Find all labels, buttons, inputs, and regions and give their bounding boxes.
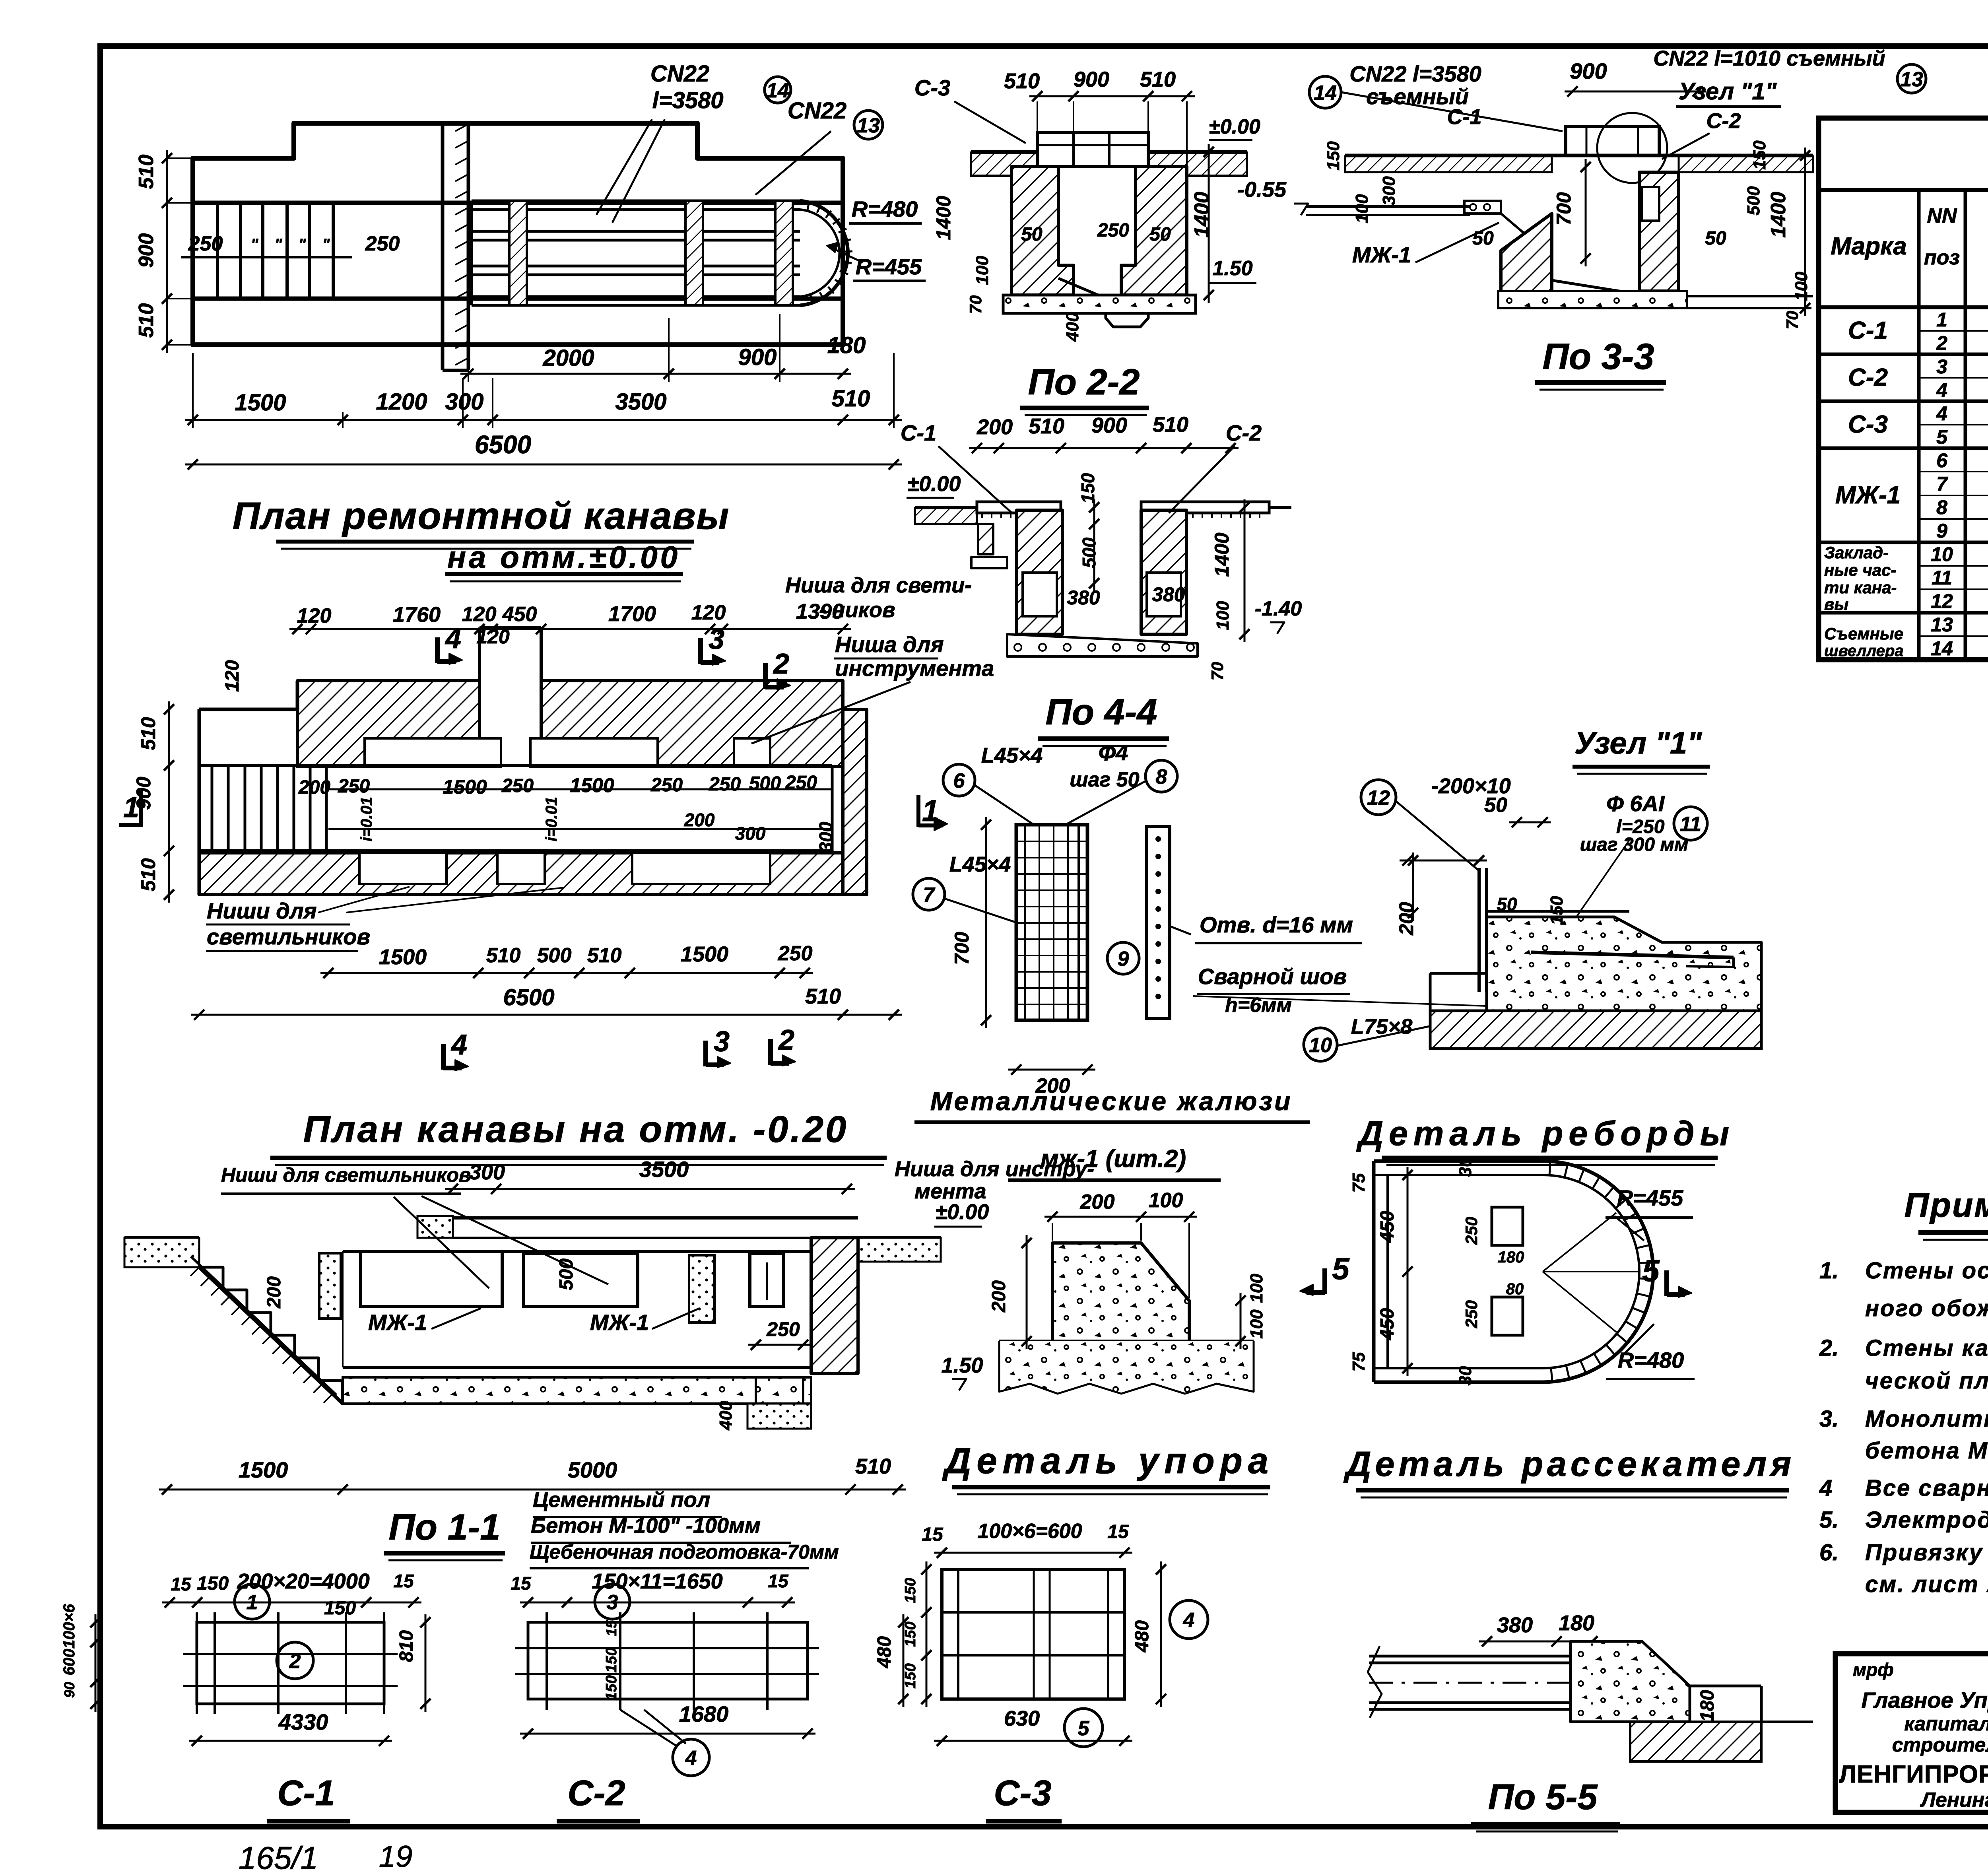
svg-text:250: 250 (365, 232, 400, 255)
svg-text:6500: 6500 (503, 985, 554, 1010)
svg-text:510: 510 (486, 944, 521, 967)
svg-text:Узел "1": Узел "1" (1574, 725, 1703, 760)
svg-text:120: 120 (691, 601, 726, 624)
svg-text:R=455: R=455 (1617, 1185, 1683, 1210)
svg-text:500: 500 (749, 773, 781, 794)
svg-text:МЖ-1: МЖ-1 (590, 1310, 649, 1335)
svg-text:600: 600 (60, 1649, 78, 1676)
svg-text:100: 100 (1792, 272, 1811, 301)
svg-text:1500: 1500 (235, 390, 286, 416)
svg-text:50: 50 (1484, 794, 1507, 817)
svg-text:Главное Управление: Главное Управление (1861, 1688, 1988, 1713)
svg-text:на отм.±0.00: на отм.±0.00 (447, 540, 680, 575)
svg-text:ного обожженного кирпича М-: ного обожженного кирпича М-100" на раств… (1865, 1295, 1988, 1321)
svg-text:По 4-4: По 4-4 (1046, 692, 1157, 732)
svg-text:500: 500 (1079, 537, 1099, 568)
svg-text:3: 3 (1936, 355, 1947, 378)
svg-text:150: 150 (1547, 896, 1567, 925)
svg-text:120: 120 (476, 625, 510, 648)
svg-text:4: 4 (1183, 1609, 1195, 1632)
svg-text:70: 70 (1208, 662, 1227, 681)
svg-text:4: 4 (1936, 402, 1947, 425)
svg-text:250: 250 (1462, 1217, 1481, 1245)
svg-text:250: 250 (709, 774, 741, 795)
svg-text:900: 900 (1091, 414, 1127, 437)
svg-text:150: 150 (902, 1578, 919, 1603)
svg-text:Ниша для: Ниша для (835, 632, 944, 657)
svg-text:C-3: C-3 (1848, 411, 1888, 438)
svg-text:15: 15 (511, 1573, 532, 1594)
svg-text:1390: 1390 (796, 600, 844, 623)
svg-text:3500: 3500 (639, 1157, 689, 1182)
svg-text:150×11=1650: 150×11=1650 (592, 1569, 722, 1593)
svg-text:1400: 1400 (1211, 532, 1233, 577)
svg-text:L45×4: L45×4 (949, 853, 1011, 876)
svg-text:250: 250 (785, 772, 817, 793)
svg-text:1760: 1760 (393, 603, 441, 627)
svg-text:180: 180 (827, 332, 866, 358)
svg-text:70: 70 (1783, 311, 1802, 330)
svg-text:250: 250 (778, 942, 813, 965)
svg-text:NN: NN (1927, 204, 1957, 227)
svg-text:поз: поз (1924, 246, 1960, 269)
svg-text:2: 2 (778, 1024, 794, 1056)
svg-text:2: 2 (773, 648, 789, 680)
svg-text:15: 15 (768, 1571, 789, 1591)
svg-text:6: 6 (1936, 449, 1948, 472)
svg-text:150: 150 (1077, 473, 1098, 503)
svg-text:11: 11 (1932, 567, 1952, 589)
svg-text:14: 14 (766, 79, 789, 102)
svg-text:400: 400 (716, 1401, 736, 1431)
svg-text:8: 8 (1156, 765, 1167, 788)
svg-text:Ниши для светильников: Ниши для светильников (221, 1164, 471, 1186)
svg-text:Съемные: Съемные (1824, 624, 1903, 643)
svg-text:Марка: Марка (1831, 233, 1906, 260)
svg-text:250: 250 (1462, 1300, 1481, 1328)
svg-text:11: 11 (1680, 813, 1701, 836)
svg-text:±0.00: ±0.00 (936, 1200, 989, 1224)
svg-text:шаг 300 мм: шаг 300 мм (1580, 834, 1689, 855)
svg-text:8: 8 (1936, 496, 1947, 519)
svg-text:1500: 1500 (681, 942, 728, 966)
svg-text:±0.00: ±0.00 (1209, 115, 1260, 138)
svg-text:мента: мента (914, 1179, 986, 1203)
svg-text:Металлические жалюзи: Металлические жалюзи (930, 1086, 1293, 1116)
svg-text:165/1: 165/1 (239, 1840, 318, 1874)
svg-text:250: 250 (1097, 220, 1129, 241)
svg-text:180: 180 (1498, 1249, 1524, 1266)
svg-text:5.: 5. (1819, 1507, 1839, 1533)
svg-text:1400: 1400 (1190, 192, 1213, 238)
svg-text:": " (251, 236, 259, 253)
svg-text:По 2-2: По 2-2 (1028, 362, 1140, 402)
svg-text:5: 5 (1332, 1251, 1350, 1286)
svg-text:мрф: мрф (1853, 1659, 1894, 1680)
svg-text:ти кана-: ти кана- (1824, 578, 1897, 597)
svg-text:10: 10 (1309, 1034, 1332, 1057)
svg-text:l=3580: l=3580 (652, 87, 723, 113)
svg-text:3500: 3500 (615, 389, 666, 415)
svg-text:380: 380 (1497, 1613, 1533, 1637)
svg-text:1700: 1700 (608, 602, 656, 626)
svg-text:Деталь реборды: Деталь реборды (1356, 1115, 1735, 1153)
svg-text:10: 10 (1931, 543, 1953, 565)
svg-text:15: 15 (1107, 1521, 1129, 1542)
svg-text:1.50: 1.50 (1212, 257, 1252, 280)
svg-text:CN22 l=1010 съемный: CN22 l=1010 съемный (1653, 47, 1885, 70)
svg-text:200: 200 (988, 1280, 1010, 1313)
svg-text:150: 150 (1750, 140, 1769, 170)
svg-text:200: 200 (298, 777, 330, 798)
svg-text:300: 300 (469, 1160, 505, 1184)
svg-text:Щебеночная подготовка-70мм: Щебеночная подготовка-70мм (530, 1541, 839, 1563)
svg-text:19: 19 (379, 1840, 413, 1874)
svg-text:100: 100 (1149, 1189, 1183, 1212)
svg-text:200: 200 (264, 1276, 285, 1309)
svg-text:Ф4: Ф4 (1099, 740, 1128, 765)
svg-text:5: 5 (1642, 1253, 1660, 1288)
svg-text:7: 7 (1936, 473, 1948, 495)
svg-text:510: 510 (805, 985, 841, 1008)
svg-text:Электроды марки „Э-42": Электроды марки „Э-42" (1865, 1507, 1988, 1533)
svg-text:4: 4 (685, 1747, 697, 1770)
svg-text:i=0.01: i=0.01 (358, 797, 375, 841)
svg-text:510: 510 (1029, 414, 1064, 438)
svg-text:ные час-: ные час- (1824, 561, 1896, 579)
svg-text:C-3: C-3 (994, 1773, 1051, 1813)
svg-text:По 1-1: По 1-1 (389, 1507, 501, 1548)
svg-text:3: 3 (709, 623, 724, 655)
svg-text:50: 50 (1472, 228, 1494, 249)
svg-text:100: 100 (1213, 601, 1233, 630)
svg-text:630: 630 (1004, 1707, 1040, 1730)
svg-text:Примечания:: Примечания: (1905, 1186, 1988, 1224)
svg-text:CN22: CN22 (788, 98, 846, 124)
svg-text:120: 120 (297, 604, 332, 627)
svg-text:План канавы на отм. -0.20: План канавы на отм. -0.20 (303, 1108, 848, 1150)
svg-text:1400: 1400 (932, 196, 955, 240)
svg-text:900: 900 (738, 344, 777, 370)
svg-text:CN22: CN22 (650, 61, 709, 87)
svg-text:80: 80 (1506, 1280, 1524, 1298)
svg-text:инструмента: инструмента (835, 656, 994, 681)
svg-text:90: 90 (61, 1682, 78, 1698)
svg-text:700: 700 (951, 932, 973, 965)
svg-text:510: 510 (587, 944, 622, 967)
svg-text:300: 300 (1379, 176, 1399, 206)
svg-text:1500: 1500 (570, 774, 614, 796)
svg-text:14: 14 (1931, 637, 1953, 660)
svg-text:810: 810 (396, 1630, 417, 1662)
svg-text:1680: 1680 (679, 1701, 729, 1726)
svg-text:4: 4 (1936, 379, 1947, 401)
svg-text:Привязку ремонтно-осматровой: Привязку ремонтно-осматровой канавы (1865, 1540, 1988, 1565)
svg-text:1500: 1500 (239, 1457, 288, 1482)
svg-text:4: 4 (1819, 1475, 1832, 1501)
svg-text:300: 300 (445, 389, 484, 415)
svg-text:C-2: C-2 (1848, 364, 1888, 391)
svg-text:5000: 5000 (568, 1457, 617, 1482)
svg-text:Стены осматровой канавы выл: Стены осматровой канавы выложить из крас… (1865, 1258, 1988, 1284)
svg-text:7: 7 (923, 884, 936, 907)
svg-text:2000: 2000 (542, 345, 594, 371)
svg-text:": " (299, 236, 307, 253)
svg-text:900: 900 (135, 233, 158, 268)
svg-text:шаг 50: шаг 50 (1070, 768, 1139, 791)
svg-text:510: 510 (855, 1455, 891, 1478)
svg-text:1: 1 (123, 792, 139, 823)
svg-text:500: 500 (537, 944, 572, 967)
svg-text:1.50: 1.50 (941, 1354, 983, 1377)
svg-text:300: 300 (815, 821, 836, 852)
svg-text:200×20=4000: 200×20=4000 (237, 1569, 369, 1593)
svg-text:1200: 1200 (376, 389, 427, 415)
svg-text:200: 200 (1395, 902, 1417, 936)
svg-text:150: 150 (197, 1573, 229, 1594)
svg-text:Ф 6АI: Ф 6АI (1606, 791, 1665, 816)
svg-text:100×6=600: 100×6=600 (977, 1520, 1082, 1543)
svg-text:200: 200 (1080, 1190, 1115, 1214)
svg-text:120: 120 (462, 603, 497, 626)
svg-text:50: 50 (1021, 224, 1043, 245)
svg-text:светильников: светильников (207, 924, 370, 949)
svg-text:вы: вы (1824, 595, 1848, 614)
svg-text:R=480: R=480 (852, 196, 918, 221)
svg-text:150: 150 (603, 1647, 620, 1672)
svg-text:МЖ-1: МЖ-1 (1835, 482, 1901, 509)
svg-text:1: 1 (247, 1591, 258, 1614)
svg-text:50: 50 (1149, 224, 1171, 245)
svg-text:-0.55: -0.55 (1237, 178, 1287, 202)
svg-text:450: 450 (1377, 1308, 1398, 1340)
svg-text:380: 380 (1152, 583, 1185, 606)
svg-text:120: 120 (222, 660, 243, 692)
svg-text:Ниша для инстру-: Ниша для инстру- (895, 1157, 1094, 1181)
svg-text:900: 900 (1074, 68, 1109, 91)
svg-text:15: 15 (922, 1524, 944, 1545)
svg-text:C-1: C-1 (277, 1773, 335, 1813)
svg-text:150: 150 (902, 1622, 919, 1647)
svg-text:L45×4: L45×4 (981, 744, 1043, 767)
svg-text:100: 100 (1247, 1309, 1266, 1339)
svg-text:см. лист АС-9: см. лист АС-9 (1865, 1571, 1988, 1597)
svg-text:510: 510 (137, 717, 159, 750)
svg-text:50: 50 (1497, 894, 1517, 915)
svg-text:Цементный пол: Цементный пол (533, 1488, 710, 1512)
svg-text:480: 480 (1132, 1620, 1153, 1653)
svg-text:3: 3 (607, 1591, 618, 1614)
svg-text:15: 15 (393, 1571, 414, 1591)
svg-text:Деталь упора: Деталь упора (942, 1441, 1274, 1481)
svg-text:": " (322, 236, 330, 253)
svg-text:МЖ-1: МЖ-1 (1352, 242, 1411, 267)
svg-text:100: 100 (973, 256, 992, 285)
svg-text:13: 13 (1931, 614, 1953, 636)
svg-text:100: 100 (1352, 194, 1372, 223)
svg-text:C-1: C-1 (1848, 317, 1888, 344)
svg-text:70: 70 (966, 295, 985, 314)
svg-text:L75×8: L75×8 (1351, 1015, 1413, 1039)
svg-text:250: 250 (338, 776, 370, 797)
svg-text:150: 150 (902, 1663, 919, 1688)
svg-text:100×6: 100×6 (60, 1604, 78, 1649)
svg-text:3: 3 (714, 1026, 730, 1058)
svg-text:480: 480 (874, 1636, 895, 1668)
svg-text:75: 75 (1349, 1352, 1369, 1371)
svg-text:500: 500 (556, 1258, 577, 1290)
svg-text:510: 510 (137, 858, 159, 891)
svg-text:180: 180 (1697, 1690, 1718, 1722)
svg-text:300: 300 (735, 823, 766, 844)
svg-text:Ленинград: Ленинград (1920, 1789, 1988, 1812)
svg-text:2: 2 (1936, 332, 1947, 354)
svg-text:510: 510 (1140, 68, 1176, 91)
svg-text:Сварной шов: Сварной шов (1198, 964, 1347, 989)
svg-text:12: 12 (1367, 786, 1390, 810)
svg-text:150: 150 (603, 1675, 620, 1700)
svg-text:План ремонтной канавы: План ремонтной канавы (233, 495, 730, 537)
svg-text:ческой плиткой: ческой плиткой (1865, 1368, 1988, 1394)
svg-text:C-2: C-2 (1226, 420, 1262, 445)
svg-text:По 5-5: По 5-5 (1488, 1777, 1598, 1817)
svg-text:180: 180 (1559, 1611, 1594, 1635)
svg-text:3.: 3. (1819, 1406, 1839, 1432)
svg-text:Отв. d=16 мм: Отв. d=16 мм (1200, 912, 1353, 937)
svg-text:30: 30 (1456, 1366, 1475, 1385)
svg-text:400: 400 (1063, 312, 1082, 342)
svg-text:250: 250 (766, 1318, 800, 1340)
svg-text:6.: 6. (1819, 1540, 1839, 1565)
svg-text:-1.40: -1.40 (1255, 597, 1302, 620)
svg-text:9: 9 (1118, 948, 1129, 971)
svg-text:C-2: C-2 (567, 1773, 625, 1813)
svg-text:250: 250 (650, 775, 683, 796)
svg-text:ЛЕНГИПРОРЕЧТРАНС: ЛЕНГИПРОРЕЧТРАНС (1839, 1761, 1988, 1788)
svg-text:250: 250 (188, 232, 223, 255)
svg-text:1500: 1500 (443, 776, 487, 798)
svg-text:Стены канавы изнутри облице: Стены канавы изнутри облицевать керами- (1865, 1335, 1988, 1361)
svg-text:2: 2 (289, 1650, 301, 1673)
svg-text:1.: 1. (1819, 1258, 1839, 1284)
svg-text:450: 450 (502, 603, 537, 626)
svg-text:Узел "1": Узел "1" (1679, 78, 1777, 105)
svg-text:150: 150 (1324, 141, 1343, 171)
svg-text:510: 510 (832, 386, 870, 412)
svg-text:Ниши для: Ниши для (207, 898, 317, 923)
svg-text:строительства: строительства (1892, 1734, 1988, 1756)
svg-text:510: 510 (135, 303, 158, 338)
svg-text:5: 5 (1936, 426, 1948, 448)
svg-text:Все сварные швы толшиной h: Все сварные швы толшиной hшв = 6мм (1865, 1475, 1988, 1501)
svg-text:C-1: C-1 (901, 420, 936, 445)
svg-text:4: 4 (450, 1029, 467, 1061)
svg-text:510: 510 (1153, 413, 1188, 437)
svg-text:Заклад-: Заклад- (1824, 543, 1889, 562)
svg-text:15: 15 (171, 1574, 192, 1594)
svg-text:15: 15 (603, 1620, 619, 1636)
svg-text:12: 12 (1931, 590, 1953, 612)
svg-text:±0.00: ±0.00 (907, 472, 961, 496)
svg-text:1500: 1500 (379, 945, 427, 969)
svg-text:2.: 2. (1819, 1335, 1839, 1361)
svg-text:5: 5 (1078, 1717, 1090, 1740)
svg-text:1: 1 (1936, 309, 1947, 331)
svg-text:Монолитные участки выполнять: Монолитные участки выполнять из (1865, 1406, 1988, 1432)
svg-text:4330: 4330 (278, 1709, 328, 1734)
svg-text:6500: 6500 (475, 430, 531, 459)
svg-text:1400: 1400 (1767, 192, 1790, 238)
svg-text:100: 100 (1247, 1274, 1266, 1303)
svg-text:900: 900 (1570, 58, 1607, 84)
svg-text:C-2: C-2 (1706, 109, 1741, 133)
svg-text:700: 700 (1553, 192, 1575, 225)
svg-text:30: 30 (1456, 1157, 1475, 1177)
svg-text:МЖ-1: МЖ-1 (368, 1310, 427, 1335)
svg-text:510: 510 (135, 155, 158, 189)
svg-text:R=455: R=455 (856, 254, 922, 279)
svg-text:150: 150 (324, 1598, 356, 1619)
svg-text:13: 13 (857, 114, 880, 137)
svg-text:500: 500 (1744, 186, 1763, 216)
svg-text:i=0.01: i=0.01 (543, 797, 560, 841)
svg-text:По 3-3: По 3-3 (1543, 336, 1654, 377)
svg-text:бетона М„-150": бетона М„-150" (1865, 1438, 1988, 1464)
svg-text:250: 250 (501, 775, 534, 796)
svg-text:200: 200 (684, 810, 715, 830)
svg-text:CN22 l=3580: CN22 l=3580 (1349, 61, 1481, 86)
svg-text:4: 4 (445, 623, 461, 654)
svg-text:6: 6 (953, 769, 965, 792)
svg-text:450: 450 (1377, 1211, 1398, 1243)
svg-text:9: 9 (1936, 520, 1947, 542)
svg-text:": " (275, 236, 283, 253)
svg-text:50: 50 (1705, 228, 1726, 249)
svg-text:14: 14 (1314, 82, 1337, 105)
svg-text:Бетон М-100" -100мм: Бетон М-100" -100мм (531, 1514, 761, 1538)
svg-text:75: 75 (1349, 1173, 1369, 1192)
svg-text:380: 380 (1067, 586, 1100, 609)
svg-text:Ниша для свети-: Ниша для свети- (785, 573, 972, 597)
svg-text:капитального: капитального (1904, 1713, 1988, 1735)
svg-text:швеллера: швеллера (1824, 642, 1904, 660)
svg-text:200: 200 (977, 415, 1013, 439)
svg-text:510: 510 (1004, 69, 1040, 93)
svg-text:C-3: C-3 (914, 75, 950, 100)
svg-text:Деталь рассекателя: Деталь рассекателя (1343, 1444, 1795, 1484)
svg-text:13: 13 (1900, 68, 1923, 91)
